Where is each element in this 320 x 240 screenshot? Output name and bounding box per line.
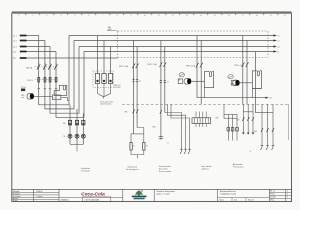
node L3 incoming (13, 47, 50, 49)
sheet title text (220, 190, 236, 196)
node N incoming (13, 52, 56, 54)
fuse set F0 (28, 77, 59, 82)
breaker Q1 (132, 64, 138, 69)
panel dashed boundary lower (122, 104, 290, 106)
bus L1 (69, 34, 280, 37)
current transformer loop (252, 71, 261, 89)
wire drop b (103, 41, 105, 74)
breaker Q2 (160, 62, 167, 67)
meter kWh (178, 78, 205, 84)
revision table rows (269, 192, 291, 198)
feeder branch FRIO 2 (148, 41, 191, 174)
svg-text:TH: TH (63, 136, 65, 138)
svg-text:3: 3 (46, 15, 47, 17)
svg-text:Dibujado: Dibujado (13, 191, 19, 193)
overload elements (227, 128, 238, 132)
svg-text:L2: L2 (278, 41, 280, 43)
tie wire (255, 112, 273, 114)
svg-text:de 4: de 4 (234, 199, 237, 201)
current transformer loop CT0 (54, 85, 67, 95)
motor starter group torre lavado (201, 104, 238, 170)
svg-text:16: 16 (228, 15, 230, 17)
shared wire to next sheet (197, 97, 272, 100)
logo cell sub row (59, 196, 123, 198)
wire route 2 (167, 104, 185, 151)
starter wires (243, 104, 253, 134)
svg-text:H.2: H.2 (270, 98, 273, 100)
svg-text:11: 11 (158, 15, 160, 17)
tie wire (243, 111, 253, 113)
starter wires (228, 115, 237, 141)
thermal relay marks (160, 80, 166, 82)
auxiliary contact ticks (159, 137, 163, 139)
svg-text:Prensa latas: Prensa latas (233, 166, 244, 169)
spare feeder wire (254, 52, 256, 113)
svg-text:18: 18 (256, 15, 258, 17)
title block top line (12, 188, 292, 190)
svg-text:Esquema Electrico: Esquema Electrico (220, 190, 236, 193)
motor starter group derecha (250, 104, 275, 153)
node L1 incoming (13, 36, 39, 38)
svg-text:Ed. 01: Ed. 01 (270, 191, 275, 193)
contactor contacts KM2 (160, 110, 162, 114)
top strip ticks (26, 13, 278, 15)
contactor KM contacts (133, 109, 139, 113)
TITLE BLOCK (12, 189, 292, 202)
svg-text:R2: R2 (146, 146, 148, 148)
transformer box TT (52, 95, 69, 101)
svg-text:TI 150/5: TI 150/5 (21, 87, 27, 89)
svg-text:6: 6 (88, 15, 89, 17)
CT ring (179, 73, 184, 77)
feeder branch FRIO 3 (178, 36, 272, 105)
svg-text:Envas. grande: Envas. grande (159, 170, 171, 173)
svg-text:Id. normas: Id. normas (13, 196, 21, 198)
motor starter group alumbrado (233, 104, 254, 168)
feeder branch FRIO 1 (119, 41, 148, 171)
node L2 incoming (13, 41, 45, 43)
svg-text:E-50.14: E-50.14 (248, 199, 254, 201)
breaker Q3 (196, 63, 203, 68)
bus L2 (74, 39, 280, 42)
wire route 1 (165, 113, 182, 152)
svg-text:DISC A: DISC A (26, 66, 33, 69)
svg-text:FRIO 3 (B): FRIO 3 (B) (186, 65, 196, 67)
wire drop a (97, 36, 99, 74)
wire pair down (133, 41, 135, 134)
terminal hooks (261, 146, 275, 150)
svg-text:sobretensiones: sobretensiones (100, 103, 112, 106)
exit chevrons (242, 132, 254, 134)
svg-text:15: 15 (214, 15, 216, 17)
wire down from loop (203, 88, 205, 98)
node PE incoming (13, 58, 118, 60)
svg-text:1: 1 (18, 15, 19, 17)
tie wires (224, 114, 237, 116)
svg-text:FUS 1: FUS 1 (28, 80, 33, 82)
svg-text:FRIO 1 (A): FRIO 1 (A) (119, 65, 129, 68)
sheet cell sub row (218, 197, 270, 199)
bus N (84, 50, 280, 53)
arrester module 1 (95, 74, 99, 84)
column numbers (18, 15, 285, 17)
arrester module 3 (108, 74, 112, 84)
svg-text:FRIO 2 (A): FRIO 2 (A) (148, 63, 158, 66)
border frame (12, 13, 292, 201)
svg-text:Congelador lavado: Congelador lavado (220, 193, 236, 196)
arrester module 2 (102, 74, 106, 84)
svg-text:Plano: Plano (270, 200, 274, 202)
ventilation starter group (63, 105, 90, 173)
CT ring (228, 75, 233, 79)
svg-text:13: 13 (186, 15, 188, 17)
svg-text:10: 10 (144, 15, 146, 17)
wire pair down (242, 36, 244, 105)
CT tick marks (38, 88, 58, 90)
svg-text:7: 7 (102, 15, 103, 17)
svg-text:4: 4 (60, 15, 61, 17)
project name text (157, 190, 176, 196)
terminal strip X2 (192, 112, 211, 128)
column wires (70, 105, 83, 145)
svg-text:17: 17 (242, 15, 244, 17)
svg-text:Fecha: Fecha (13, 200, 18, 202)
svg-text:RS 2400: RS 2400 (114, 87, 120, 89)
cabinet dashed boundary (118, 31, 269, 57)
meter kWh (231, 80, 252, 86)
svg-text:Sanlucar Jerez planta: Sanlucar Jerez planta (157, 190, 176, 193)
left table texts (13, 191, 43, 202)
svg-text:J. Gomez: J. Gomez (36, 196, 43, 198)
bottom tie (70, 144, 83, 151)
svg-text:Fecha: Fecha (270, 194, 274, 196)
kWh meter M0 (21, 87, 53, 99)
title block dividers (34, 189, 286, 201)
svg-text:Comprob.: Comprob. (13, 193, 21, 195)
left table rows (12, 192, 59, 199)
breaker Q4 (242, 62, 249, 67)
surge arrester enclosure (93, 71, 114, 88)
current transformer loop (204, 72, 213, 88)
bus L3 (79, 45, 280, 48)
wire merge (98, 84, 111, 99)
svg-text:2: 2 (32, 15, 33, 17)
disconnect switch Q0 (26, 63, 58, 70)
svg-text:de emergencia: de emergencia (126, 168, 139, 171)
wire pair down (196, 36, 198, 98)
wire pair down (160, 41, 162, 140)
wire L1 drop (39, 36, 69, 105)
thermal relay marks (132, 80, 138, 82)
svg-text:cardanes: cardanes (201, 168, 209, 171)
wire down from loop (251, 89, 253, 98)
svg-text:Hoja 1: Hoja 1 (220, 199, 225, 201)
svg-text:04-2002: 04-2002 (270, 197, 276, 199)
svg-text:REF 507: REF 507 (114, 85, 120, 87)
svg-text:14: 14 (200, 15, 202, 17)
wire route 3 (171, 104, 190, 151)
contact slashes (261, 128, 274, 132)
svg-text:palenc. 1ª parte: palenc. 1ª parte (157, 193, 170, 196)
wire N drop (56, 52, 84, 118)
svg-text:19: 19 (270, 15, 272, 17)
green bottler logo (132, 190, 147, 199)
split wiring (131, 128, 144, 143)
wire drop c (110, 47, 112, 74)
terminal hooks (180, 149, 191, 154)
resistor R1 (130, 143, 132, 151)
wire L3 drop (50, 47, 79, 114)
svg-text:de lavado: de lavado (81, 170, 89, 172)
svg-text:L1: L1 (278, 36, 280, 38)
rejoin wiring (131, 150, 144, 158)
surge protector group FRIO 1A (93, 36, 121, 106)
svg-text:8: 8 (116, 15, 117, 17)
svg-text:L3: L3 (278, 47, 280, 49)
spare wire right (288, 104, 290, 140)
svg-text:12: 12 (172, 15, 174, 17)
svg-text:42: 42 (167, 143, 169, 145)
contact slashes (242, 117, 254, 121)
starter wires (262, 104, 273, 147)
svg-text:5: 5 (74, 15, 75, 17)
svg-text:kWh: kWh (21, 95, 24, 97)
wire L2 drop (45, 41, 74, 109)
svg-text:15-04-02: 15-04-02 (36, 191, 42, 193)
strip stubs (196, 112, 206, 128)
resistor R2 (143, 143, 145, 151)
svg-text:R1: R1 (133, 146, 135, 148)
svg-text:9: 9 (130, 15, 131, 17)
svg-text:TT: TT (53, 97, 55, 99)
svg-text:20: 20 (284, 15, 286, 17)
feeder branch FRIO 4 (228, 36, 262, 105)
cabinet label TAB (107, 26, 117, 31)
svg-text:42: 42 (250, 151, 252, 153)
